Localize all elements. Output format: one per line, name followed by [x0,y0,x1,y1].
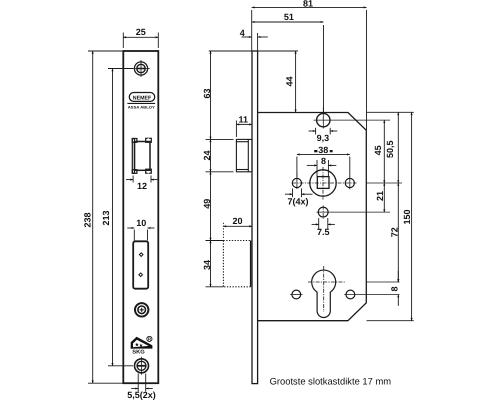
fixing hole left of cylinder [290,290,302,299]
svg-text:63: 63 [202,88,212,98]
dim 34 [210,241,212,287]
svg-text:44: 44 [285,76,295,86]
fixing hole right of cylinder [344,290,399,299]
dim 44 [295,51,297,112]
svg-text:238: 238 [82,212,92,227]
dim 25 top [123,33,158,49]
dim 51 [252,21,324,23]
case top ext [367,111,414,113]
svg-text:45: 45 [373,145,383,155]
NEMEF logo [127,93,155,110]
hole 9.3 [314,107,391,129]
dim 7,5 [312,218,335,230]
svg-text:12: 12 [137,181,147,191]
latch cutout front view [132,138,151,173]
dim 81 [252,7,367,130]
dim 20 [223,223,252,239]
dim 72 [397,183,399,282]
dim 21 [383,183,385,212]
svg-text:8: 8 [321,156,326,166]
ext line 51 to hole [323,25,325,114]
svg-text:5,5(2x): 5,5(2x) [127,390,156,400]
fixing hole right of spindle [345,177,354,190]
dim 7(4x) fixing hole diameter [285,189,313,198]
cylinder center ext line [367,281,400,283]
svg-text:213: 213 [101,210,111,225]
svg-text:NEMEF: NEMEF [133,96,152,102]
svg-text:49: 49 [202,199,212,209]
hole 7.5 [317,206,391,220]
deadbolt cutout front view [133,241,148,288]
lock case outline [258,113,367,321]
svg-text:10: 10 [136,218,146,228]
dim 24 [206,139,234,171]
faceplate side view strip [252,51,258,384]
svg-text:50,5: 50,5 [385,140,395,158]
svg-text:8: 8 [389,286,399,291]
anti-saw pin diamond 1 [139,252,144,257]
dim 11 [236,121,252,138]
svg-text:51: 51 [284,12,294,22]
dim 50,5 [397,112,399,183]
dim 150 [411,112,413,320]
dim 10 [127,228,154,241]
dim 45 [383,120,385,183]
dim 4 [242,33,268,51]
svg-text:7.5: 7.5 [317,227,330,237]
svg-text:4: 4 [240,28,245,38]
dim 213 [108,69,133,366]
svg-text:21: 21 [375,191,385,201]
svg-text:25: 25 [136,27,146,37]
dim 8 cylinder [397,271,399,306]
dim 8 square [307,160,337,176]
dim 12 [126,176,158,183]
svg-text:81: 81 [303,0,313,9]
svg-text:SKG: SKG [132,349,145,355]
dim 63 [206,51,299,139]
svg-text:34: 34 [202,260,212,270]
svg-text:20: 20 [232,216,242,226]
svg-text:24: 24 [202,150,212,160]
dim 238 [88,51,123,383]
svg-text:Grootste slotkastdikte 17 mm: Grootste slotkastdikte 17 mm [270,377,392,388]
dim 38 [297,154,350,177]
deadbolt side view thrown (dashed front) [206,241,251,287]
svg-text:9,3: 9,3 [317,133,330,143]
fixing hole left of spindle [292,172,301,189]
spindle ext line right [367,182,403,184]
svg-text:11: 11 [238,115,248,125]
dim 49 [210,172,212,241]
svg-text:ASSA ABLOY: ASSA ABLOY [128,105,156,109]
spindle follower [292,167,357,200]
faceplate front view outline [123,51,158,383]
euro cylinder hole [308,266,345,318]
svg-text:72: 72 [389,227,399,237]
svg-text:150: 150 [402,209,412,224]
SKG logo [131,336,153,355]
dim 5,5(2x) [131,374,153,392]
dim 9,3 [309,128,338,135]
svg-text:38: 38 [318,145,328,155]
anti-saw pin diamond 2 [138,272,143,277]
top screw hole [132,60,149,77]
svg-text:7(4x): 7(4x) [288,197,309,207]
case bottom ext [367,320,414,322]
latch side view [236,139,252,171]
bottom screw hole [135,357,149,375]
middle screw hole [135,303,148,316]
